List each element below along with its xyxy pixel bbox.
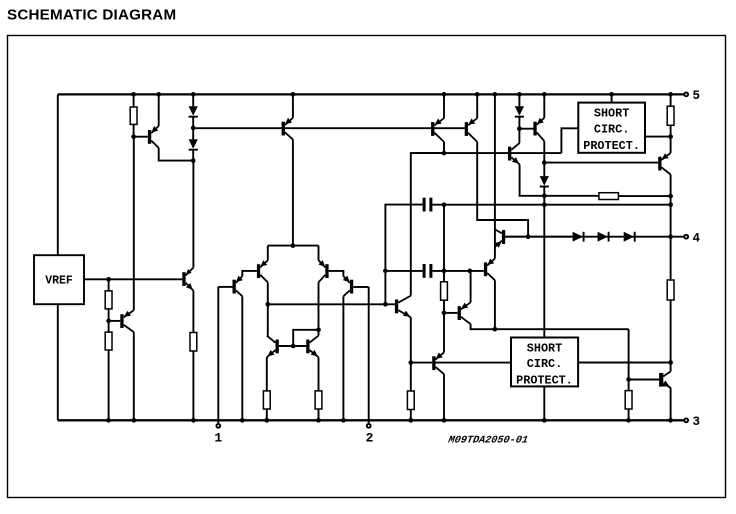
wire R6 bottom — [318, 409, 320, 420]
node C2 left — [383, 269, 388, 274]
wire diff output — [268, 303, 395, 305]
resistor R11 — [667, 280, 674, 300]
node tail center — [291, 243, 296, 248]
node Q19 collector — [542, 160, 547, 165]
wire C1 left — [385, 205, 422, 271]
wire Q16 emitter vertical — [494, 94, 496, 258]
wire Q20 collector — [670, 175, 672, 237]
pin 1 terminal — [216, 424, 220, 428]
wire Q16 collector — [494, 280, 496, 329]
resistor R7 — [441, 282, 448, 300]
wire Q15 base — [444, 312, 458, 314]
transistor Q10 (NPN mirror right) — [306, 336, 318, 358]
node R1 top rail — [131, 92, 136, 97]
wire box2 right — [578, 362, 671, 364]
wire Q18 emitter — [520, 165, 599, 196]
node pin4 junction — [668, 234, 673, 239]
node R5 rail — [264, 418, 269, 423]
resistor R5 — [263, 391, 270, 409]
node Q8 emitter rail — [291, 92, 296, 97]
diode D3 — [515, 106, 524, 116]
svg-text:PROTECT.: PROTECT. — [583, 139, 640, 153]
block SHORT CIRC PROTECT 1 — [578, 103, 645, 153]
node Q16 top rail — [493, 92, 498, 97]
wire D4 bottom — [543, 187, 545, 338]
wire Q1 emitter to rail — [158, 94, 160, 126]
node Q21 rail — [668, 418, 673, 423]
wire Q2 base — [109, 320, 121, 322]
node VREF-divider — [106, 277, 111, 282]
transistor Q5 (PNP, diff pair left) — [257, 260, 268, 282]
node bias line — [191, 126, 196, 131]
node Q2 base — [106, 319, 111, 324]
resistor R12 — [625, 391, 632, 409]
node Q18 emitter junction — [542, 193, 547, 198]
wire R11 top — [670, 237, 672, 280]
node R12 rail — [626, 418, 631, 423]
svg-text:2: 2 — [366, 431, 374, 446]
node Q1 emitter rail — [156, 92, 161, 97]
wire Q6 base to Q7 — [329, 271, 344, 276]
node C2-R7 bottom — [442, 269, 447, 274]
svg-text:SHORT: SHORT — [594, 107, 629, 121]
wire Q9 emitter — [266, 357, 268, 391]
wire Q5 collector — [267, 282, 269, 335]
transistor Q19 (PNP) — [533, 118, 544, 142]
wire Q8 collector — [292, 139, 294, 245]
wire bias base rail — [193, 127, 465, 129]
wire Q2 emitter — [133, 137, 135, 311]
transistor Q7 (PNP) — [343, 276, 353, 297]
resistor R9 (horizontal) — [599, 193, 619, 200]
wire sense branch — [628, 329, 630, 390]
node D2 bottom — [191, 158, 196, 163]
transistor Q20 (PNP) — [658, 153, 670, 175]
wire D1-D2 — [192, 117, 194, 140]
wire VREF output — [84, 278, 182, 280]
svg-text:CIRC.: CIRC. — [527, 357, 562, 371]
node R9 out — [668, 194, 673, 199]
wire C1 right line — [432, 204, 670, 206]
VREF bottom wire — [57, 304, 59, 420]
wire Q13 collector — [411, 153, 444, 296]
node output drive — [668, 360, 673, 365]
wire box1 feed — [561, 128, 578, 153]
transistor Q16 (PNP) — [484, 259, 495, 281]
node R10 rail — [668, 92, 673, 97]
svg-text:3: 3 — [693, 415, 701, 429]
node Q13 emitter — [408, 360, 413, 365]
svg-text:1: 1 — [214, 431, 222, 446]
node Q20 emitter node — [668, 134, 673, 139]
transistor Q12 (PNP) — [465, 118, 478, 142]
wire Q12 collector — [477, 142, 528, 237]
node comp line out — [668, 202, 673, 207]
node comp to diff — [383, 302, 388, 307]
wire Q14 base to box — [436, 362, 512, 364]
node R7 bottom — [442, 311, 447, 316]
node C1 line mid — [542, 202, 547, 207]
diode D5 — [573, 232, 584, 242]
wire Q19 collector — [543, 141, 545, 176]
node Q4 collector rail — [240, 418, 245, 423]
block SHORT CIRC PROTECT 2 — [511, 338, 578, 388]
svg-text:PROTECT.: PROTECT. — [516, 374, 573, 388]
transistor Q14 (PNP) — [432, 352, 444, 374]
node D3 rail — [517, 92, 522, 97]
transistor Q21 (NPN output) — [659, 372, 671, 388]
wire Q18 base rail — [411, 152, 562, 154]
capacitor C2 — [423, 264, 433, 278]
transistor Q18 (NPN) — [508, 143, 520, 165]
node Q1 base — [131, 134, 136, 139]
pin 2 terminal — [367, 424, 371, 428]
wire diff tail rail — [268, 245, 319, 247]
svg-text:VREF: VREF — [45, 275, 73, 288]
node Q14 collector rail — [442, 418, 447, 423]
wire Q7 collector — [342, 296, 344, 420]
resistor R8 — [407, 391, 414, 410]
wire Q11 emitter — [443, 94, 445, 118]
node Q15-Q16 collectors — [493, 327, 498, 332]
node Q7 collector rail — [341, 418, 346, 423]
wire pin2 vertical — [368, 287, 370, 424]
pin 5 terminal — [684, 93, 688, 97]
VREF supply wire top — [57, 94, 59, 255]
transistor Q17 (PNP mirrored) — [495, 229, 505, 247]
wire box1 right — [645, 136, 671, 138]
node R6 rail — [316, 418, 321, 423]
svg-text:5: 5 — [693, 89, 701, 103]
wire R7 link — [443, 205, 445, 282]
node Q16 emitter tap — [467, 269, 472, 274]
wire D2 bottom — [192, 150, 194, 161]
svg-text:SCHEMATIC DIAGRAM: SCHEMATIC DIAGRAM — [7, 7, 176, 24]
node diff out left — [265, 302, 270, 307]
wire Q3 collector — [192, 161, 194, 268]
node D3 bottom — [517, 126, 522, 131]
wire Q21 emitter — [670, 388, 672, 421]
wire R1 bottom to node — [133, 124, 135, 136]
wire R12 bottom — [628, 409, 630, 420]
node box2 rail — [542, 418, 547, 423]
transistor Q6 (PNP, diff pair right) — [318, 260, 328, 282]
wire pin1 vertical — [217, 287, 219, 424]
resistor R10 — [667, 106, 674, 125]
diode D7 — [624, 232, 635, 242]
wire D3 top — [518, 94, 520, 106]
wire Q1 collector — [159, 148, 194, 161]
wire C2 left — [385, 270, 422, 272]
resistor R2 — [105, 291, 112, 309]
wire box1 top — [611, 94, 613, 102]
wire D1 top — [192, 94, 194, 106]
transistor Q9 (NPN mirror left) — [267, 336, 279, 358]
wire Q11 collector — [443, 142, 445, 153]
wire Q8 emitter — [292, 94, 294, 117]
diode D6 — [598, 232, 609, 242]
node Q2 collector rail — [131, 418, 136, 423]
wire top rail +Vs — [58, 93, 685, 95]
wire Q10 emitter — [318, 357, 320, 391]
wire Q12 emitter — [476, 94, 478, 118]
wire Q15 emitter — [470, 271, 472, 302]
wire divider upper — [108, 279, 110, 291]
wire Q4 base — [218, 286, 232, 288]
diode D1 — [189, 106, 198, 116]
wire C2 right — [432, 270, 484, 272]
svg-text:M09TDA2050-01: M09TDA2050-01 — [446, 435, 529, 447]
wire mirror base tie — [279, 345, 306, 347]
wire D3 bottom — [518, 117, 520, 143]
pin 4 terminal — [684, 235, 688, 239]
wire R5 bottom — [266, 409, 268, 420]
transistor Q4 (PNP) — [233, 276, 243, 297]
wire Q21 base — [629, 379, 660, 381]
node D1 top rail — [191, 92, 196, 97]
wire Q5 emitter — [267, 246, 269, 261]
node Q19 emitter rail — [542, 92, 547, 97]
wire R8 bottom — [410, 410, 412, 421]
wire Q19 base — [519, 128, 533, 130]
wire R7 bottom — [443, 300, 445, 313]
wire Q15 collector — [471, 324, 629, 329]
wire C2 left down — [384, 271, 386, 304]
wire R10 bottom — [670, 125, 672, 153]
resistor R6 — [315, 391, 322, 409]
wire Q6 emitter — [318, 246, 320, 261]
transistor Q1 (PNP) — [148, 126, 159, 148]
wire Q17 base line — [505, 236, 572, 238]
transistor Q15 (PNP) — [458, 302, 471, 324]
wire Q21 collector — [670, 363, 672, 372]
wire Q1 base — [134, 136, 148, 138]
svg-text:CIRC.: CIRC. — [594, 122, 629, 136]
node mirror collector tie — [316, 327, 321, 332]
wire Q14 collector — [443, 374, 445, 420]
wire Q4 collector — [241, 296, 243, 420]
wire R4 bottom — [192, 351, 194, 420]
wire bottom rail -Vs — [58, 419, 685, 421]
transistor Q13 (NPN gain) — [395, 296, 411, 318]
wire R11 bottom — [670, 300, 672, 363]
resistor R3 — [105, 332, 112, 350]
wire pin4 line — [505, 236, 684, 238]
wire Q4 emitter from Q5 base elbow — [242, 271, 257, 276]
resistor R1 — [130, 107, 137, 124]
transistor Q2 (PNP) — [120, 310, 134, 332]
wire R9 right — [618, 195, 670, 197]
node mirror base — [291, 344, 296, 349]
wire Q6 collector — [318, 282, 320, 335]
diode D2 — [189, 139, 198, 149]
wire Q20 base — [544, 162, 658, 164]
transistor Q3 (NPN) — [182, 268, 193, 291]
node R8 rail — [408, 418, 413, 423]
wire Q13 emitter — [410, 317, 412, 391]
resistor R4 — [190, 333, 197, 352]
wire R10 top — [670, 94, 672, 106]
node Q11 emitter rail — [442, 92, 447, 97]
svg-text:4: 4 — [693, 232, 701, 246]
wire R1 top — [133, 94, 135, 107]
wire Q14 emitter — [443, 313, 445, 353]
node R4 rail — [191, 418, 196, 423]
node R3 rail — [106, 418, 111, 423]
pin 3 terminal — [684, 418, 688, 422]
wire R3 bottom — [108, 350, 110, 420]
wire Q14 base left — [411, 362, 432, 364]
capacitor C1 — [423, 198, 433, 212]
node Q11 collector — [442, 151, 447, 156]
block VREF — [34, 255, 84, 304]
wire Q3 emitter — [192, 291, 194, 333]
transistor Q8 (PNP) — [282, 118, 293, 140]
wire Q19 emitter — [543, 94, 545, 117]
transistor Q11 (PNP) — [431, 118, 444, 142]
wire Q7 base — [353, 286, 369, 288]
wire Q2 collector — [133, 332, 135, 420]
wire box2 bottom — [543, 386, 545, 420]
node box1 rail — [609, 92, 614, 97]
wire divider mid — [108, 309, 110, 332]
node Q17 base junction — [526, 234, 531, 239]
wire mirror diode link — [293, 330, 318, 346]
diode D4 — [540, 176, 549, 186]
node Q12 emitter rail — [475, 92, 480, 97]
node Q21 base tap — [626, 377, 631, 382]
svg-text:SHORT: SHORT — [527, 341, 562, 355]
node C1-R7 — [442, 202, 447, 207]
